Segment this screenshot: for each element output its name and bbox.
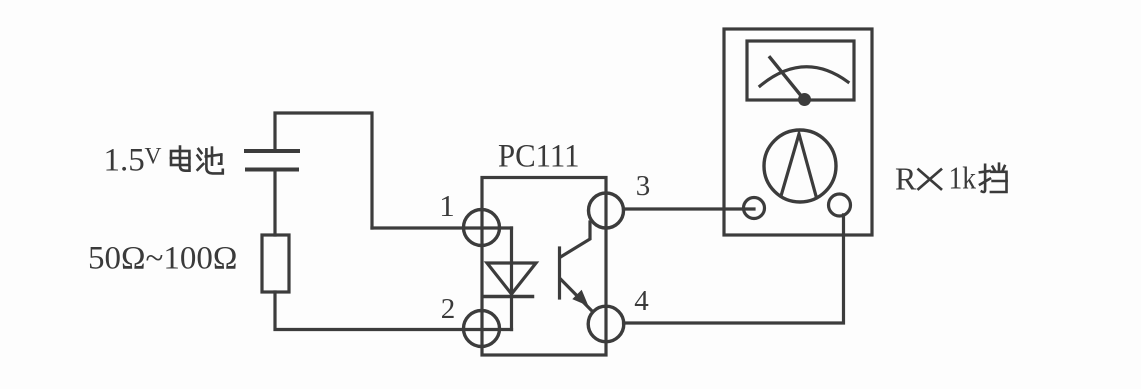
wire to pin 1 bbox=[372, 226, 512, 229]
pin 1 label bbox=[439, 188, 455, 223]
label PC111 bbox=[498, 139, 580, 175]
pin 4 label bbox=[634, 285, 649, 317]
svg-text:V: V bbox=[145, 144, 162, 170]
dial pointer bbox=[781, 134, 816, 196]
wire resistor bottom to bottom rail bbox=[275, 292, 512, 330]
svg-text:PC111: PC111 bbox=[498, 139, 580, 175]
svg-text:2: 2 bbox=[441, 293, 456, 325]
optocoupler U1 PC111 box bbox=[482, 178, 606, 356]
label 1.5V电池 bbox=[104, 143, 223, 179]
svg-text:4: 4 bbox=[634, 285, 649, 317]
multimeter M1 body bbox=[724, 29, 872, 235]
wire battery bottom to resistor bbox=[273, 170, 276, 236]
pin 3 label bbox=[636, 170, 651, 202]
svg-text:3: 3 bbox=[636, 170, 651, 202]
pin 3 circle bbox=[589, 193, 624, 228]
wire pin3 to meter terminal bbox=[624, 207, 755, 210]
meter needle pivot bbox=[798, 93, 811, 106]
LED D1 (emitter diode) bbox=[484, 228, 536, 330]
glyph 电 bbox=[171, 147, 190, 171]
meter needle bbox=[770, 58, 805, 101]
glyph 池 bbox=[198, 148, 223, 174]
glyph 挡 bbox=[980, 164, 1007, 192]
svg-text:50Ω~100Ω: 50Ω~100Ω bbox=[88, 241, 237, 277]
label 50Ω~100Ω bbox=[88, 241, 237, 277]
pin 4 circle bbox=[588, 306, 624, 342]
svg-text:R: R bbox=[895, 161, 917, 197]
svg-text:1: 1 bbox=[439, 188, 455, 223]
resistor R1 50Ω~100Ω bbox=[262, 235, 289, 292]
pin 2 label bbox=[441, 293, 456, 325]
meter scale arc bbox=[760, 67, 848, 86]
meter display window bbox=[747, 41, 854, 100]
svg-text:1k: 1k bbox=[949, 160, 977, 196]
terminal (right) bbox=[829, 194, 851, 216]
glyph × bbox=[919, 170, 942, 190]
pin 2 circle bbox=[464, 311, 500, 347]
phototransistor Q1 bbox=[560, 222, 592, 310]
range dial knob bbox=[764, 130, 836, 202]
wire pin4 to meter bottom corner bbox=[624, 215, 844, 323]
label R×1k挡 bbox=[895, 160, 976, 197]
pin 1 circle bbox=[464, 210, 500, 246]
wire battery top to corner bbox=[275, 113, 372, 228]
battery B1 (1.5V) bbox=[246, 151, 298, 170]
terminal (left) bbox=[744, 198, 765, 219]
svg-text:1.5: 1.5 bbox=[104, 143, 145, 179]
